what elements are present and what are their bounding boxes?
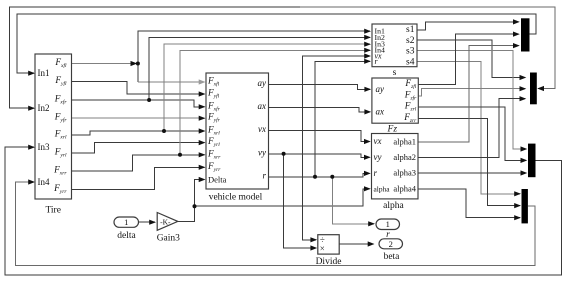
svg-text:2: 2 [389, 239, 393, 249]
arrow into vehicle Fxrr [199, 152, 206, 157]
svg-text:alpha: alpha [383, 201, 404, 211]
mux1 output to Tire In1 feedback [17, 14, 536, 73]
mux 4 [522, 189, 528, 223]
arrow into vehicle Fxfl [199, 79, 206, 84]
arrow into mux2 right side [537, 86, 544, 91]
arrow into s vx [364, 53, 371, 58]
wire Fyfl [72, 82, 205, 95]
arrow into mux4 in2 [514, 203, 521, 208]
inport delta [114, 217, 139, 227]
svg-text:Tire: Tire [45, 206, 61, 216]
junction delta branch [193, 204, 197, 208]
junction Fxrl [162, 129, 166, 133]
wire vy [269, 154, 370, 158]
arrow into mux2 in3 [520, 96, 527, 101]
arrow into outport r [368, 221, 375, 226]
arrow into mux1 in2 [513, 32, 520, 37]
wire Fxfr [72, 100, 205, 107]
arrow into mux3 in2 [521, 158, 528, 163]
arrow into vehicle Fyfr [199, 116, 206, 121]
svg-text:Delta: Delta [208, 175, 227, 185]
svg-text:ax: ax [258, 101, 267, 111]
wire delta branch to alpha [195, 189, 370, 206]
svg-text:alpha4: alpha4 [393, 183, 416, 193]
block Fz [372, 78, 418, 123]
outport beta [379, 239, 403, 249]
svg-text:vy: vy [374, 152, 382, 162]
wire r to s block [315, 61, 370, 177]
block Tire [35, 54, 72, 199]
arrow into mux4 in1 [514, 191, 521, 196]
svg-text:s2: s2 [406, 36, 415, 46]
arrow into alpha vy [364, 155, 371, 160]
wire r [269, 173, 370, 176]
svg-text:ay: ay [258, 78, 267, 88]
arrow into Fz ax [364, 109, 371, 114]
arrow into Tire In2 [28, 106, 35, 111]
wire alpha3 [418, 172, 526, 174]
svg-text:In2: In2 [38, 103, 50, 113]
wire s1 [417, 22, 519, 30]
svg-text:alpha: alpha [374, 184, 391, 193]
junction Fxfr [147, 98, 151, 102]
svg-text:ax: ax [376, 107, 385, 117]
wire Fxfr to s In2 [149, 37, 370, 100]
wire s4 [417, 62, 520, 194]
wire Fzfl [418, 34, 518, 84]
wire vy to Divide [284, 154, 316, 248]
arrow into mux3 in1 [521, 146, 528, 151]
arrow into mux2 in1 [520, 75, 527, 80]
wire alpha2 [418, 99, 525, 158]
arrow into alpha alpha [364, 186, 371, 191]
svg-text:vx: vx [374, 136, 382, 146]
mux 3 [528, 144, 536, 178]
arrow into mux2 in2 [520, 86, 527, 91]
arrow into mux4 in3 [514, 215, 521, 220]
arrow into outport beta [368, 241, 375, 246]
block alpha [372, 134, 419, 199]
arrow into Tire In4 [28, 179, 35, 184]
svg-text:×: × [320, 243, 325, 253]
svg-text:In4: In4 [38, 177, 50, 187]
arrow into alpha r [364, 171, 371, 176]
arrow into vehicle Fxfr [199, 104, 206, 109]
svg-text:vx: vx [258, 124, 266, 134]
wire Fxfl to s In1 [138, 31, 370, 63]
svg-text:alpha1: alpha1 [393, 136, 416, 146]
gain Gain3 [157, 213, 178, 231]
arrow into mux1 in1 [513, 19, 520, 24]
wire Fzrr [418, 118, 520, 205]
wire Fxrl [72, 131, 205, 135]
arrow into mux1 in3 [513, 43, 520, 48]
wire Fzrl [418, 107, 526, 160]
svg-text:beta: beta [384, 252, 401, 262]
wire Fyrr [72, 167, 205, 189]
wire ay [269, 85, 371, 90]
wire Fxfl down segment [137, 64, 139, 83]
arrow into s In4 [364, 48, 371, 53]
arrow into Gain3 [149, 220, 156, 225]
svg-text:vehicle model: vehicle model [209, 193, 263, 203]
wire Fzfr [418, 89, 525, 96]
wire Divide to beta [339, 243, 373, 245]
arrow into vehicle Fyrr [199, 165, 206, 170]
mux4 output to Tire In4 feedback [16, 182, 535, 265]
arrow into Divide x [310, 245, 317, 250]
arrow into Tire In1 [28, 71, 35, 76]
svg-text:s3: s3 [406, 46, 415, 56]
block Divide [318, 235, 339, 254]
svg-text:s: s [393, 68, 397, 78]
svg-text:Divide: Divide [316, 257, 342, 267]
svg-text:s1: s1 [406, 25, 415, 35]
arrow into mux3 in3 [521, 170, 528, 175]
svg-text:r: r [374, 168, 378, 178]
wire Fxrr [72, 155, 205, 171]
mux 1 [521, 18, 530, 51]
arrow into vehicle Fxrl [199, 128, 206, 133]
junction r to s [313, 175, 317, 179]
arrow into s r [364, 59, 371, 64]
wire Fyfr [72, 117, 205, 119]
wire vx net vertical [303, 56, 370, 240]
arrow into alpha vx [364, 139, 371, 144]
wire delta to Gain3 [139, 221, 155, 223]
svg-text:Gain3: Gain3 [157, 234, 180, 244]
In2 loop wire right part [300, 7, 555, 88]
wire ax [269, 108, 371, 112]
wire r to outport r [332, 177, 374, 224]
mux3 output to Tire In3 feedback [5, 147, 561, 275]
wire Gain3 to Delta [178, 180, 205, 222]
arrow into vehicle Fyfl [199, 91, 206, 96]
junction Fxrr [178, 153, 182, 157]
svg-text:vy: vy [258, 147, 266, 157]
arrow into vehicle Delta [199, 177, 206, 182]
junction r to outport [330, 175, 334, 179]
wire s3 [417, 50, 526, 149]
svg-text:In1: In1 [38, 68, 50, 78]
wire Fxfl down to vehicle [138, 81, 204, 83]
junction vy [282, 152, 286, 156]
svg-text:s4: s4 [406, 58, 415, 68]
junction Fxfl [136, 62, 140, 66]
svg-text:In3: In3 [38, 142, 50, 152]
wire alpha1 [418, 46, 519, 142]
wire Fxfl [72, 63, 136, 65]
arrow into vehicle Fyrl [199, 140, 206, 145]
arrow into Fz ay [364, 87, 371, 92]
mux 2 [530, 73, 537, 105]
svg-text:ay: ay [376, 84, 385, 94]
arrow into Tire In3 [28, 145, 35, 150]
wire alpha4 [418, 189, 520, 218]
arrow at Fxfl junction [131, 61, 138, 66]
svg-text:-K-: -K- [160, 217, 171, 226]
block s [372, 24, 417, 67]
outport r [376, 219, 400, 230]
svg-text:1: 1 [386, 219, 390, 229]
arrow into Divide div [310, 237, 317, 242]
wire vx [269, 131, 370, 142]
wire Fxrr to s In4 [180, 50, 370, 155]
arrow into s In2 [364, 35, 371, 40]
svg-text:1: 1 [124, 217, 128, 227]
wire s2 [417, 40, 525, 78]
arrow into s In3 [364, 42, 371, 47]
block vehicle model [206, 73, 269, 189]
svg-text:r: r [262, 170, 266, 180]
wire Fyrl [72, 143, 205, 153]
svg-text:alpha2: alpha2 [393, 152, 416, 162]
In2 loop wire left part [9, 7, 300, 108]
svg-text:alpha3: alpha3 [393, 168, 416, 178]
svg-text:delta: delta [117, 231, 136, 241]
arrow into s In1 [364, 29, 371, 34]
wire Fxrl to s In3 [164, 44, 370, 131]
